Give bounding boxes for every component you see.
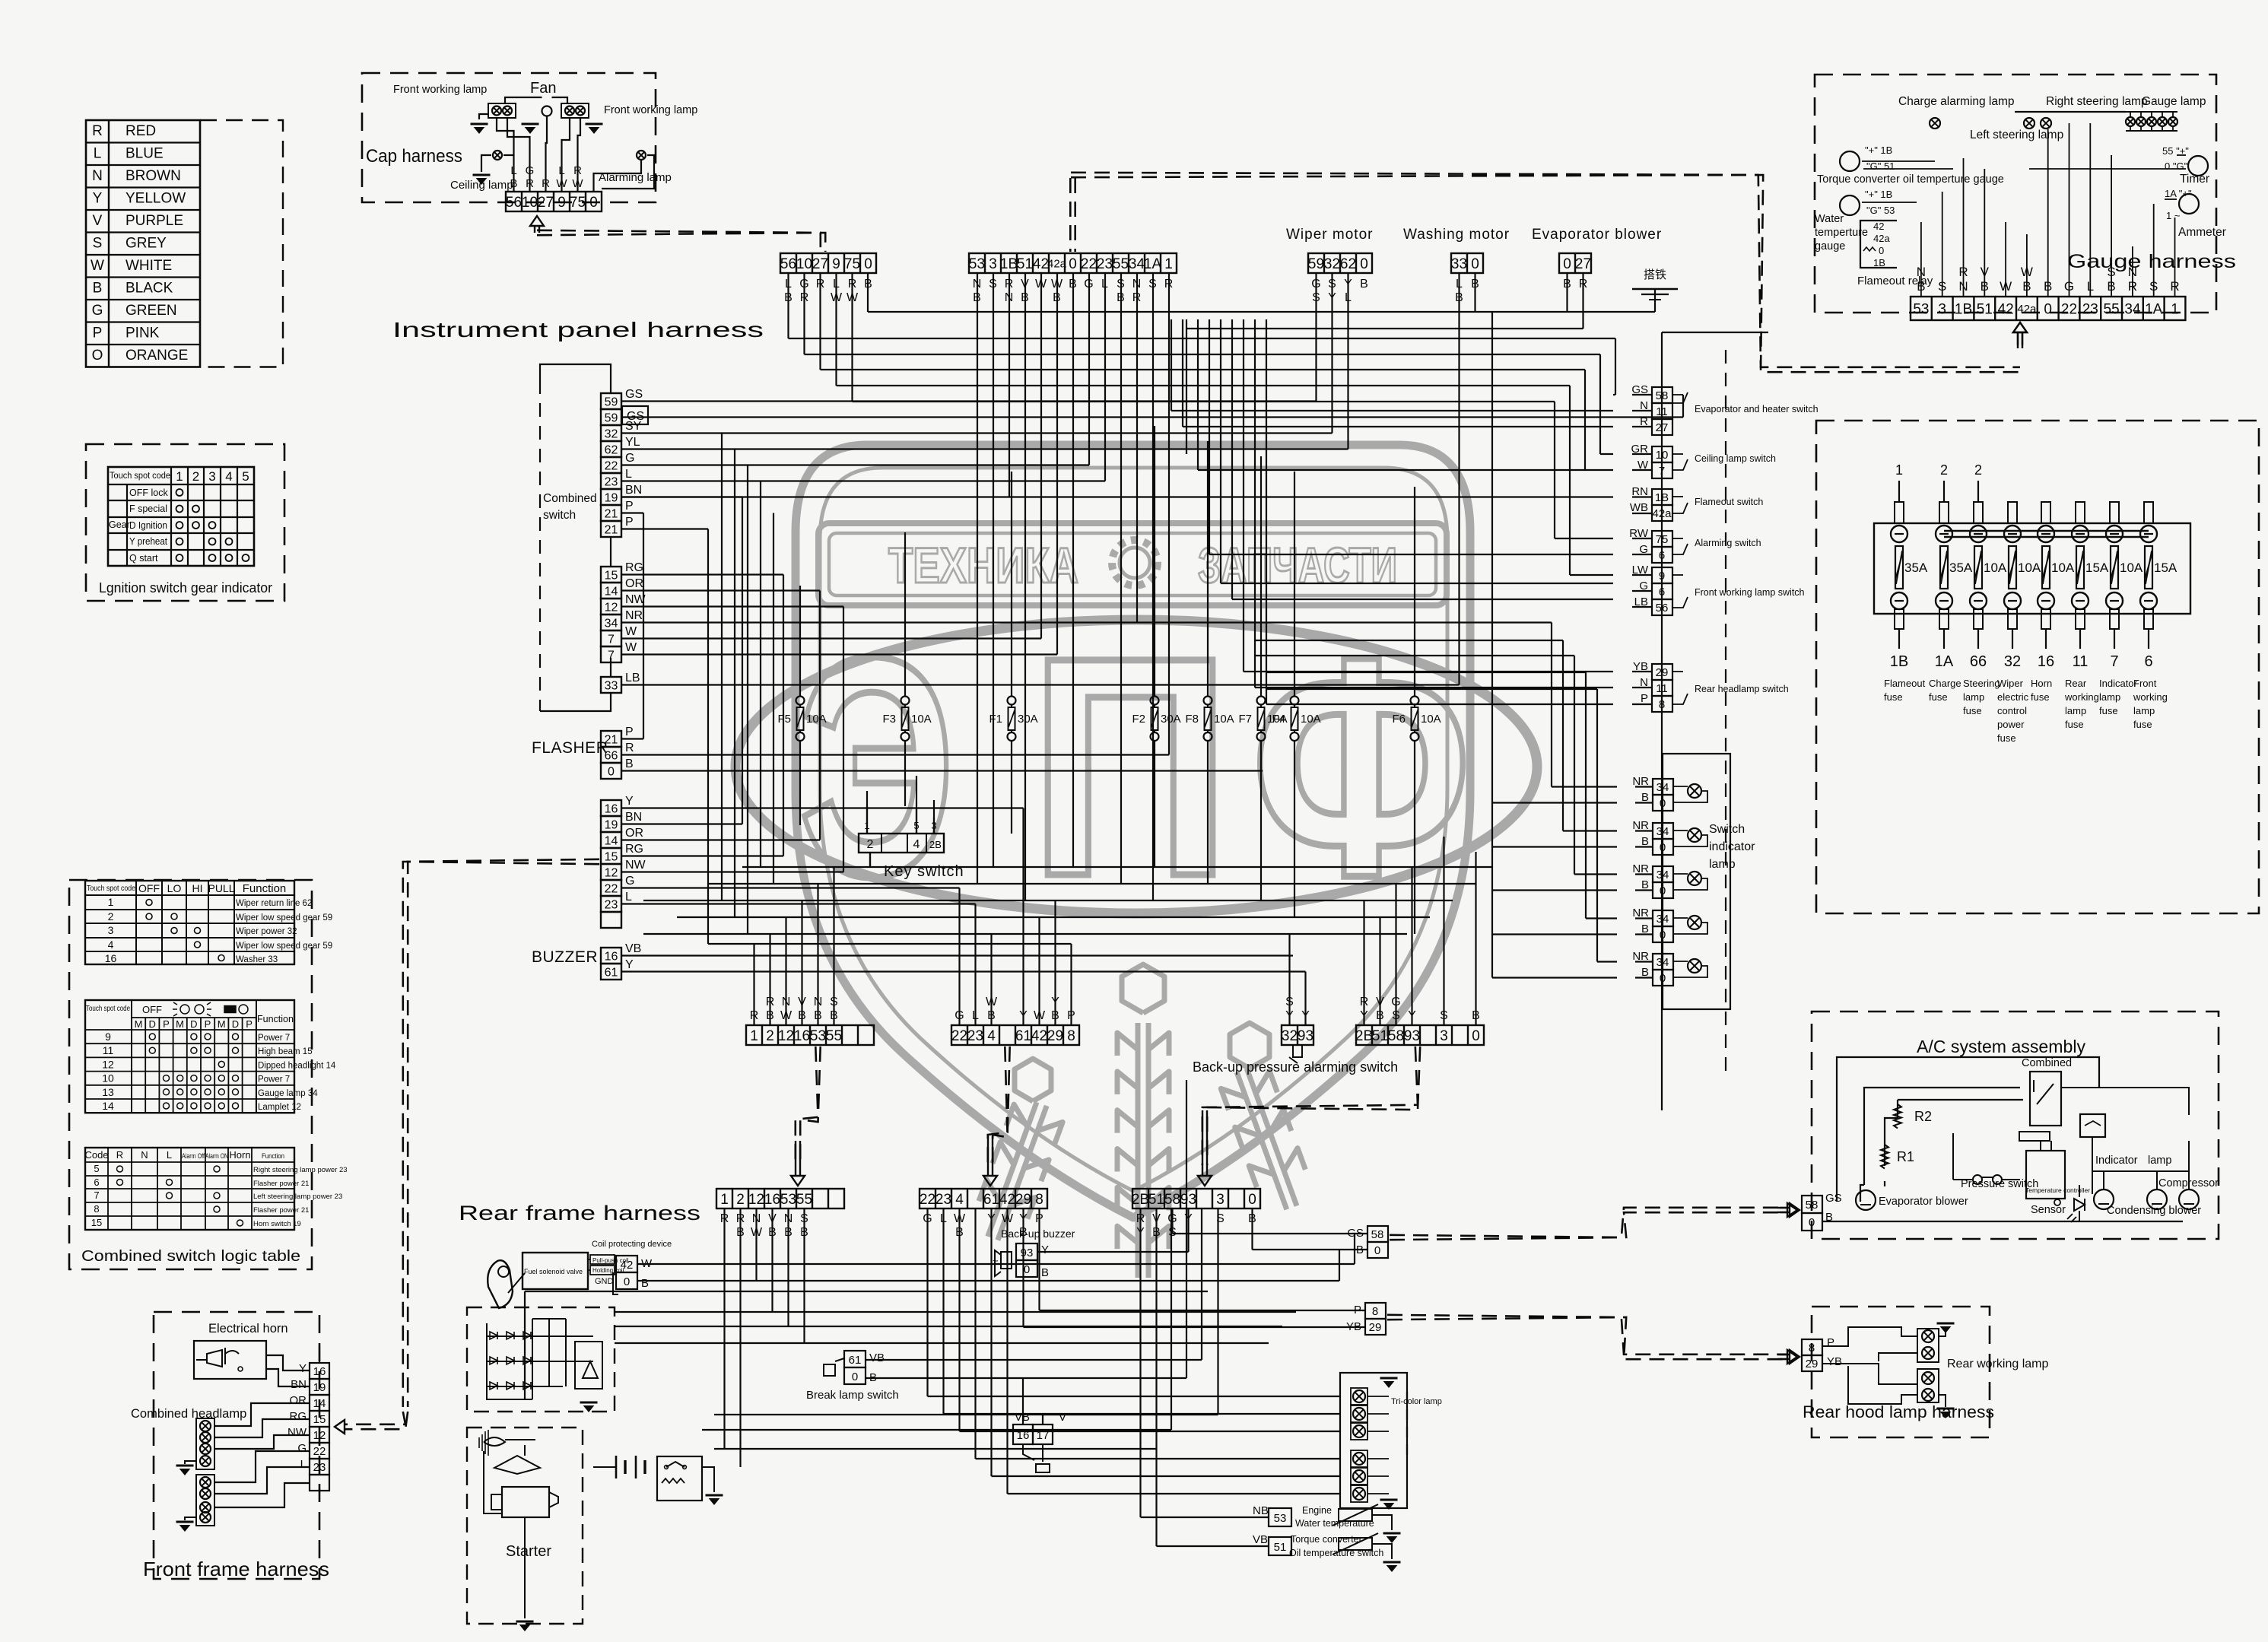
svg-text:ТЕХНИКА: ТЕХНИКА [888, 537, 1078, 593]
ground [471, 123, 488, 125]
svg-text:61: 61 [1015, 1028, 1031, 1044]
wire [643, 513, 644, 739]
horn [194, 1341, 266, 1379]
wire [1255, 687, 1613, 688]
wire [851, 273, 853, 402]
svg-text:Wiper low speed gear 59: Wiper low speed gear 59 [236, 913, 332, 923]
wire [869, 853, 871, 867]
svg-text:ЗАПЧАСТИ: ЗАПЧАСТИ [1198, 537, 1397, 593]
svg-text:Combined headlamp: Combined headlamp [131, 1407, 246, 1421]
svg-text:lamp: lamp [1963, 691, 1984, 703]
wire [1294, 761, 1295, 917]
svg-text:Touch spot code: Touch spot code [110, 472, 170, 481]
lamp [503, 106, 512, 116]
svg-text:35A: 35A [1949, 561, 1973, 575]
svg-text:Y: Y [625, 958, 634, 971]
svg-text:Function: Function [262, 1152, 284, 1161]
svg-text:Instrument panel harness: Instrument panel harness [392, 318, 764, 341]
wire [760, 481, 761, 868]
wire [787, 1208, 789, 1326]
svg-text:10A: 10A [911, 713, 932, 726]
wire [1217, 1208, 1218, 1415]
wire [1104, 273, 1106, 481]
wire [1266, 672, 1586, 673]
wire [1056, 273, 1058, 655]
svg-text:GREEN: GREEN [125, 303, 177, 319]
svg-text:F7: F7 [1238, 713, 1252, 726]
instrument panel connector A: 56 10 27 9 75 0 [780, 253, 876, 273]
svg-text:0: 0 [1660, 929, 1666, 942]
svg-text:F3: F3 [882, 713, 896, 726]
svg-text:27: 27 [538, 195, 554, 211]
svg-text:Wiper: Wiper [1997, 678, 2024, 689]
wire [621, 653, 1057, 655]
svg-text:23: 23 [935, 1192, 951, 1208]
svg-text:42a: 42a [1873, 233, 1890, 244]
harness bundle [1069, 178, 1072, 252]
cap harness box [362, 73, 656, 202]
harness bundle [403, 859, 599, 1407]
buzzer symbol [1001, 1252, 1012, 1269]
svg-text:B: B [1041, 1266, 1049, 1279]
svg-text:93: 93 [1021, 1247, 1034, 1259]
svg-text:12: 12 [605, 866, 618, 879]
wire [1600, 453, 1613, 455]
wire [621, 684, 1460, 685]
wire [721, 434, 723, 901]
svg-text:7: 7 [608, 633, 615, 646]
wire [1379, 917, 1380, 1025]
svg-text:0: 0 [1248, 1192, 1256, 1208]
svg-text:11: 11 [1656, 682, 1668, 695]
wire [958, 1208, 960, 1431]
svg-text:66: 66 [605, 749, 618, 762]
wire [1171, 1208, 1173, 1234]
svg-text:9: 9 [105, 1031, 111, 1043]
svg-text:1: 1 [1895, 462, 1903, 478]
svg-text:Wiper power 32: Wiper power 32 [236, 927, 297, 936]
cap wiring [505, 97, 542, 103]
wire [1563, 830, 1617, 831]
wire [1266, 688, 1597, 690]
lamp [200, 1432, 211, 1443]
svg-text:30A: 30A [1018, 713, 1038, 726]
svg-text:FLASHER: FLASHER [532, 739, 608, 757]
wire [1043, 1414, 1218, 1415]
svg-text:fuse: fuse [2065, 719, 2084, 730]
svg-text:Engine: Engine [1302, 1505, 1332, 1516]
svg-text:21: 21 [605, 733, 618, 746]
wire [615, 1326, 1282, 1327]
svg-text:1A "+": 1A "+" [2165, 188, 2192, 199]
wire [1562, 640, 1564, 831]
wire [1574, 873, 1617, 875]
svg-text:42: 42 [1033, 256, 1049, 272]
flameout relay [1860, 221, 1897, 268]
svg-text:34: 34 [1657, 781, 1669, 794]
svg-text:0: 0 [624, 1275, 630, 1288]
svg-text:GREY: GREY [125, 236, 167, 252]
svg-text:53: 53 [810, 1028, 826, 1044]
wire [866, 1359, 1202, 1361]
lamp [200, 1512, 211, 1523]
svg-text:59: 59 [605, 411, 618, 424]
svg-text:42: 42 [1031, 1028, 1047, 1044]
svg-text:6: 6 [1659, 586, 1665, 599]
svg-text:0: 0 [1660, 885, 1666, 897]
headlamp group 2 [196, 1475, 214, 1526]
svg-text:RED: RED [125, 123, 156, 139]
svg-text:L: L [558, 164, 564, 177]
combined switch pins group2 [601, 567, 621, 583]
panel fuse 2 [1939, 502, 1949, 523]
connector GS B 58 0 [1367, 1226, 1388, 1242]
svg-text:D: D [149, 1018, 156, 1030]
svg-text:1: 1 [108, 896, 114, 908]
svg-text:Y: Y [1041, 1243, 1049, 1256]
wire [742, 497, 743, 824]
rear frame strip A [716, 1189, 844, 1208]
svg-text:P: P [625, 726, 634, 738]
wire [867, 273, 869, 312]
ground [580, 1402, 598, 1404]
svg-text:34: 34 [1657, 869, 1669, 881]
svg-text:16: 16 [313, 1365, 326, 1378]
svg-text:YELLOW: YELLOW [125, 191, 186, 207]
svg-text:L: L [167, 1149, 172, 1161]
svg-text:B: B [1360, 278, 1368, 291]
svg-text:29: 29 [1656, 666, 1669, 679]
rear lamp 3 [1351, 1423, 1367, 1440]
wire [708, 943, 1072, 945]
rear lamp 1 [1351, 1388, 1367, 1405]
svg-text:0: 0 [1360, 256, 1368, 272]
wire [1038, 917, 1040, 1025]
svg-text:58: 58 [1164, 1192, 1180, 1208]
svg-text:4: 4 [913, 838, 920, 851]
wire [1054, 900, 1056, 1025]
svg-text:8: 8 [1035, 1192, 1043, 1208]
lamp [2168, 117, 2177, 126]
wire [1251, 1208, 1253, 1250]
control lever [488, 1260, 513, 1308]
pressure switch [1973, 1175, 1982, 1184]
svg-text:75: 75 [844, 256, 860, 272]
svg-text:3: 3 [1938, 301, 1946, 317]
alternator box [467, 1307, 615, 1412]
svg-text:33: 33 [605, 679, 618, 692]
svg-text:10: 10 [102, 1072, 114, 1085]
starter relay [657, 1456, 702, 1501]
svg-text:PINK: PINK [125, 326, 160, 341]
svg-text:WB: WB [1630, 501, 1648, 514]
wire [1011, 472, 1012, 677]
fuse F5 [796, 697, 805, 705]
svg-text:搭铁: 搭铁 [1644, 268, 1666, 281]
svg-text:0: 0 [1660, 972, 1666, 985]
harness bundle [988, 1046, 1008, 1165]
svg-text:Gear: Gear [109, 519, 130, 530]
wire [785, 917, 786, 1025]
wire [769, 934, 770, 1025]
svg-text:P: P [163, 1018, 170, 1030]
svg-text:Left steering lamp: Left steering lamp [1970, 129, 2063, 141]
wire [1395, 884, 1396, 1025]
svg-text:1A: 1A [1144, 256, 1162, 272]
wire [992, 1475, 1341, 1477]
panel fuse 3 [1974, 502, 1983, 523]
wire [1582, 273, 1583, 329]
svg-text:51: 51 [1017, 256, 1033, 272]
svg-text:NR: NR [625, 609, 643, 622]
svg-text:fuse: fuse [1929, 691, 1948, 703]
front frame connector [310, 1363, 329, 1379]
instrument panel connector B: 53 3 1B 51 42 42a 0 22 23 55 34 1A 1 [969, 253, 1177, 273]
svg-text:Washer 33: Washer 33 [236, 955, 278, 964]
svg-text:33: 33 [1451, 256, 1467, 272]
wire [702, 1429, 1171, 1431]
svg-text:3: 3 [989, 256, 997, 272]
wire [1198, 469, 1585, 471]
svg-text:61: 61 [983, 1192, 999, 1208]
svg-text:1: 1 [720, 1192, 729, 1208]
svg-text:NW: NW [625, 859, 646, 872]
wire [1244, 671, 1613, 672]
wire [773, 513, 774, 885]
fuse block [1874, 523, 2190, 614]
svg-text:Y preheat: Y preheat [129, 536, 167, 547]
svg-text:14: 14 [313, 1397, 326, 1410]
svg-text:D: D [190, 1018, 197, 1030]
svg-text:PURPLE: PURPLE [125, 213, 183, 229]
wire [803, 1208, 805, 1343]
svg-text:GND: GND [595, 1277, 614, 1286]
A/C system assembly box [1812, 1012, 2219, 1239]
svg-text:P: P [205, 1018, 211, 1030]
svg-text:F6: F6 [1392, 713, 1406, 726]
lamp [1922, 1330, 1934, 1342]
arrow [1790, 1350, 1799, 1364]
ground [586, 123, 603, 125]
svg-text:P: P [625, 516, 634, 529]
wire [1475, 852, 1476, 1025]
wire [643, 900, 1453, 901]
lamp [1922, 1347, 1934, 1359]
svg-text:F special: F special [129, 503, 167, 514]
svg-text:29: 29 [1015, 1192, 1031, 1208]
svg-text:22: 22 [2061, 301, 2077, 317]
svg-text:2: 2 [192, 469, 199, 484]
svg-text:34: 34 [1657, 913, 1669, 926]
wire [837, 385, 1571, 386]
svg-text:N: N [141, 1149, 148, 1161]
svg-text:Rear working lamp: Rear working lamp [1947, 1358, 2048, 1370]
harness bundle [1071, 173, 2020, 367]
wire [1171, 319, 1172, 411]
wire [1574, 656, 1575, 875]
wire [1331, 273, 1333, 434]
svg-text:П: П [1029, 592, 1231, 941]
svg-text:30A: 30A [1161, 713, 1181, 726]
svg-text:58: 58 [1371, 1228, 1384, 1241]
svg-text:8: 8 [1659, 698, 1665, 711]
wire [977, 273, 978, 884]
svg-text:Indicator: Indicator [2099, 678, 2138, 689]
svg-text:OR: OR [290, 1394, 307, 1407]
lamp [2147, 117, 2156, 126]
svg-text:0: 0 [1660, 797, 1666, 810]
svg-text:Touch spot code: Touch spot code [86, 1005, 130, 1013]
wire [1254, 319, 1256, 688]
svg-text:8: 8 [1809, 1342, 1815, 1355]
svg-text:4: 4 [955, 1192, 964, 1208]
svg-text:10A: 10A [2018, 561, 2041, 575]
svg-text:3: 3 [1440, 1028, 1448, 1044]
svg-text:27: 27 [812, 256, 828, 272]
water temperture gauge [1840, 195, 1860, 215]
svg-text:G: G [625, 875, 634, 888]
wire [615, 1311, 1296, 1313]
svg-text:7: 7 [1659, 465, 1665, 478]
svg-text:29: 29 [1806, 1358, 1819, 1370]
ground [473, 174, 491, 176]
wire [1585, 672, 1587, 919]
svg-text:16: 16 [605, 802, 618, 815]
svg-text:Condensing blower: Condensing blower [2107, 1205, 2201, 1217]
wire [723, 1208, 725, 1449]
lamp [2136, 117, 2146, 126]
wire [866, 791, 868, 834]
svg-text:Sensor: Sensor [2031, 1204, 2066, 1216]
svg-text:6: 6 [1659, 549, 1665, 562]
lamp [1353, 1453, 1365, 1465]
svg-text:Y: Y [299, 1362, 307, 1375]
svg-text:PULL: PULL [208, 882, 234, 894]
svg-text:12: 12 [748, 1192, 764, 1208]
svg-text:19: 19 [605, 491, 618, 504]
R2 resistor [1894, 1104, 1901, 1129]
svg-text:62: 62 [605, 443, 618, 456]
svg-text:RG: RG [625, 561, 643, 574]
svg-text:3: 3 [1216, 1192, 1225, 1208]
svg-text:P: P [625, 500, 634, 513]
svg-text:Lgnition switch gear indicator: Lgnition switch gear indicator [99, 580, 272, 596]
svg-text:7: 7 [94, 1189, 99, 1201]
svg-text:16: 16 [2038, 653, 2054, 670]
svg-text:53: 53 [780, 1192, 796, 1208]
wire [1443, 837, 1444, 1025]
wire [621, 528, 708, 529]
A/C connector 58 0 [1802, 1196, 1822, 1213]
svg-text:10A: 10A [1301, 713, 1321, 726]
svg-text:4: 4 [987, 1028, 996, 1044]
svg-text:22: 22 [920, 1192, 935, 1208]
harness bundle [1390, 1208, 1787, 1237]
svg-text:23: 23 [605, 475, 618, 488]
wire [853, 401, 1555, 402]
fuse F3 [901, 697, 910, 705]
wire [621, 512, 643, 513]
wiper motor connector 59 32 62 0 [1308, 253, 1372, 273]
ground [706, 1494, 723, 1497]
svg-text:61: 61 [849, 1354, 862, 1367]
svg-text:1B: 1B [1890, 653, 1908, 670]
svg-text:W: W [625, 625, 637, 638]
svg-text:0: 0 [1660, 841, 1666, 854]
svg-text:BLUE: BLUE [125, 146, 164, 162]
battery [615, 1456, 618, 1478]
svg-text:R: R [116, 1149, 123, 1161]
wire [747, 465, 748, 935]
wire [708, 883, 1475, 885]
harness bundle [344, 1412, 405, 1424]
svg-text:Left steering lamp power 23: Left steering lamp power 23 [253, 1193, 342, 1201]
wire [1006, 1208, 1008, 1494]
lamp [2158, 117, 2167, 126]
svg-text:OR: OR [625, 827, 643, 840]
wire [637, 1280, 1339, 1282]
svg-text:35A: 35A [1904, 561, 1928, 575]
svg-text:indicator: indicator [1709, 840, 1755, 853]
svg-text:Wiper low speed gear 59: Wiper low speed gear 59 [236, 942, 332, 951]
svg-text:GS: GS [1825, 1192, 1842, 1205]
svg-text:Flameout: Flameout [1884, 678, 1926, 689]
wire [621, 871, 843, 872]
svg-text:42a: 42a [1652, 507, 1672, 520]
wire [1207, 441, 1209, 677]
svg-text:Water: Water [1815, 213, 1844, 225]
svg-text:VB: VB [625, 942, 641, 955]
svg-text:Q start: Q start [129, 553, 158, 564]
torque converter oil temperture gauge [1840, 151, 1860, 171]
lamp [2024, 118, 2035, 129]
ground [1383, 1532, 1401, 1535]
svg-text:"+" 1B: "+" 1B [1865, 145, 1892, 156]
flameout switch [1652, 489, 1672, 505]
svg-text:Coil protecting device: Coil protecting device [592, 1240, 672, 1249]
wire [904, 761, 906, 806]
svg-text:Evaporator blower: Evaporator blower [1532, 227, 1662, 243]
wire [621, 496, 742, 497]
svg-text:34: 34 [605, 617, 618, 630]
wire [1569, 386, 1571, 575]
wire [974, 1208, 976, 1459]
svg-text:Lamplet 12: Lamplet 12 [258, 1103, 301, 1112]
wire [621, 954, 1293, 956]
svg-text:21: 21 [605, 523, 618, 536]
ground [1380, 1499, 1398, 1501]
wire [866, 1377, 1186, 1379]
svg-text:15: 15 [91, 1217, 102, 1228]
svg-text:2B: 2B [1355, 1028, 1373, 1044]
wire [1201, 1208, 1202, 1360]
svg-text:15: 15 [313, 1413, 326, 1426]
svg-text:GS: GS [625, 388, 643, 401]
wire [1266, 703, 1613, 705]
headlamp wires [266, 1355, 310, 1370]
wire [868, 311, 1655, 313]
svg-text:"G" 51: "G" 51 [1866, 160, 1895, 172]
svg-text:1B: 1B [1655, 491, 1669, 504]
svg-text:29: 29 [1369, 1321, 1382, 1334]
wire [1597, 961, 1617, 962]
svg-text:5: 5 [242, 469, 249, 484]
svg-text:Power 7: Power 7 [258, 1034, 290, 1043]
svg-text:56: 56 [780, 256, 796, 272]
wire [843, 607, 844, 872]
wire [1492, 977, 1617, 978]
svg-text:32: 32 [605, 427, 618, 440]
